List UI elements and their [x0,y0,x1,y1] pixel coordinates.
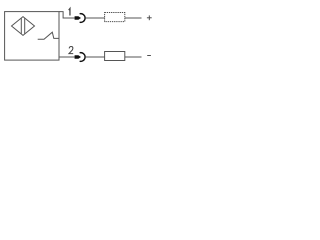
proximity sensor diamond [12,17,35,36]
diamond bar right [24,18,26,34]
wire 1 step from box corner [59,12,75,18]
connector socket 2 (arc) [80,53,85,62]
wire 2 to minus [125,56,142,58]
load (solid box) [105,52,125,61]
diamond bar left [20,18,22,34]
wire 2 from box [59,56,75,58]
connector plug 1 (arrow) [75,16,81,20]
plus terminal [147,15,152,20]
connector socket 1 (arc) [80,14,85,23]
pin 1 label [69,9,70,16]
optional load (dashed box) [105,13,125,22]
pin 2 label [69,47,73,54]
wire 1 to plus [125,17,142,19]
minus terminal [147,55,151,57]
sensor body outline [5,12,59,61]
connector plug 2 (arrow) [75,55,81,59]
wire 2 to load [85,56,104,58]
wire 1 to load [85,17,104,19]
switch contact [38,32,59,39]
